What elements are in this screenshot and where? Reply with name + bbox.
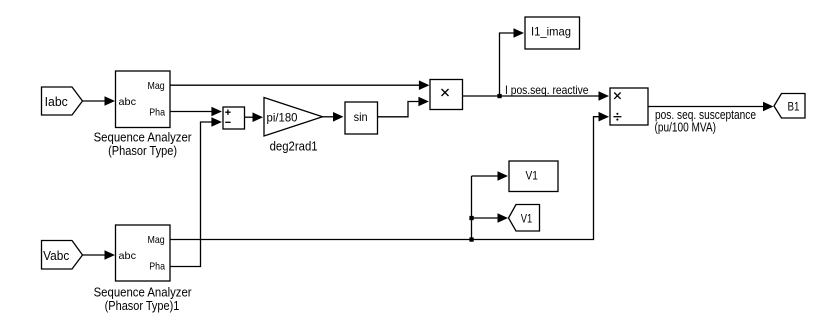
wire branch up to I1_imag [500, 28, 525, 96]
svg-text:deg2rad1: deg2rad1 [270, 139, 318, 154]
svg-text:(Phasor Type): (Phasor Type) [108, 143, 177, 158]
wire Divide output to B1 [648, 102, 774, 112]
block Sequence Analyzer (Phasor Type) [116, 71, 171, 128]
svg-text:Mag: Mag [148, 80, 165, 92]
svg-text:I1_imag: I1_imag [531, 25, 571, 39]
block V1 goto tag [509, 205, 540, 232]
block V1 display [509, 161, 558, 192]
svg-text:I pos.seq. reactive: I pos.seq. reactive [505, 83, 589, 97]
sum block Add [223, 107, 245, 129]
svg-text:abc: abc [119, 96, 137, 108]
divide block [610, 88, 648, 125]
wire Vabc to Sequence Analyzer1 [83, 250, 116, 260]
wire branch to V1 goto tag [472, 213, 509, 223]
svg-text:(pu/100 MVA): (pu/100 MVA) [655, 120, 717, 135]
output port B1 [774, 94, 805, 119]
svg-text:sin: sin [354, 110, 368, 124]
input port Iabc [42, 87, 83, 115]
gain deg2rad1 triangle [264, 98, 323, 137]
svg-text:Pha: Pha [149, 107, 165, 119]
block sin (Trigonometric Function) [345, 102, 378, 134]
wire sin output to Product bottom input [378, 97, 429, 117]
svg-text:Iabc: Iabc [45, 94, 69, 109]
svg-text:abc: abc [119, 250, 137, 262]
svg-text:Mag: Mag [148, 234, 165, 246]
wire Pha of Sequence Analyzer1 to Sum minus input [170, 117, 222, 266]
input port Vabc [42, 241, 83, 270]
svg-text:B1: B1 [788, 99, 800, 113]
wire Product output to Divide x input [463, 91, 610, 101]
wire V1 vertical branch [471, 176, 473, 240]
wire Pha of Sequence Analyzer to Sum plus input [170, 107, 222, 117]
svg-text:(Phasor Type)1: (Phasor Type)1 [105, 298, 180, 313]
svg-text:Vabc: Vabc [43, 248, 70, 263]
junction node V1 branch [469, 237, 473, 241]
wire Mag of Sequence Analyzer1 to Divide divisor input [170, 112, 609, 240]
junction node lower V1 branch [469, 216, 473, 220]
svg-text:V1: V1 [521, 211, 533, 225]
block Sequence Analyzer (Phasor Type)1 [116, 225, 171, 281]
svg-text:pi/180: pi/180 [267, 111, 298, 125]
svg-text:Pha: Pha [149, 261, 165, 273]
wire Mag of Sequence Analyzer to Product top input [170, 80, 429, 90]
wire branch to V1 display block [472, 171, 509, 181]
wire Gain to sin block [323, 112, 344, 122]
junction node I pos seq reactive [497, 94, 501, 98]
svg-text:V1: V1 [526, 169, 539, 183]
wire Iabc to Sequence Analyzer [83, 96, 116, 106]
block I1_imag (Goto) [525, 17, 580, 49]
wire Sum output to Gain deg2rad1 [245, 112, 264, 122]
product block Multiply [430, 80, 463, 110]
